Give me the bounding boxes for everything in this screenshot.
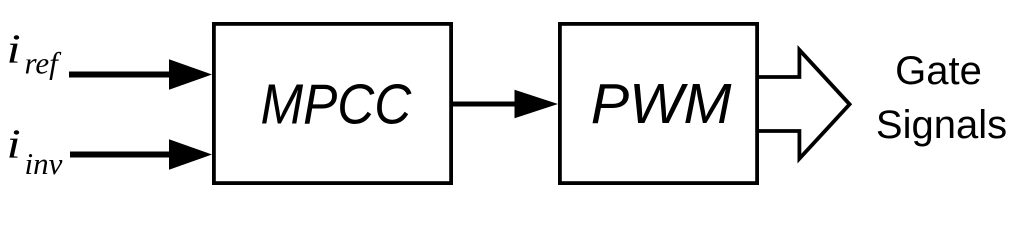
svg-text:i: i: [7, 27, 21, 72]
label: Gate Signals: [876, 49, 1007, 147]
svg-text:i: i: [7, 122, 21, 167]
node i_inv label: [7, 122, 63, 181]
svg-text:Gate: Gate: [895, 49, 982, 93]
block PWM: [560, 24, 757, 183]
svg-text:inv: inv: [25, 146, 63, 181]
wire: i_ref input arrow: [69, 59, 212, 89]
wire: i_inv input arrow: [70, 139, 212, 169]
svg-text:PWM: PWM: [591, 72, 732, 136]
svg-text:Signals: Signals: [876, 103, 1007, 147]
svg-text:ref: ref: [25, 46, 63, 81]
wire: MPCC to PWM arrow: [452, 90, 558, 119]
block MPCC: [214, 24, 451, 183]
svg-text:MPCC: MPCC: [261, 73, 413, 136]
node i_ref label: [7, 27, 63, 80]
block: hollow output arrow: [757, 50, 850, 159]
